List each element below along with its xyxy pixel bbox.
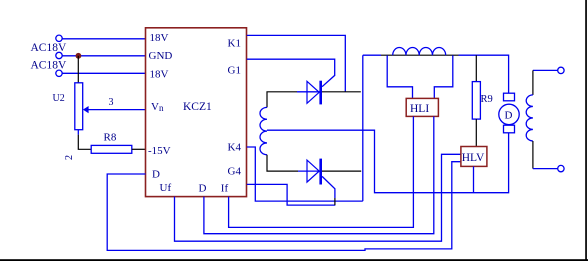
- label If pin: [221, 183, 229, 195]
- potentiometer U2 body: [75, 83, 83, 130]
- wire D bottom pin to HLI right output: [204, 116, 434, 233]
- field terminal bottom: [558, 165, 564, 171]
- wire transformer centre top to SCR1 anode: [267, 92, 297, 108]
- terminal input 2: [56, 52, 62, 58]
- thyristor V2 cathode bar: [319, 159, 322, 185]
- wire output to smoothing inductor: [363, 54, 381, 56]
- top line black segment: [381, 54, 459, 56]
- svg-text:3: 3: [109, 97, 114, 108]
- thyristor V2 triangle: [307, 160, 319, 182]
- svg-text:AC18V: AC18V: [31, 60, 67, 72]
- svg-text:KCZ1: KCZ1: [183, 101, 212, 113]
- svg-text:Vn: Vn: [151, 101, 164, 113]
- U2 bottom stub: [77, 130, 79, 135]
- svg-text:18V: 18V: [150, 32, 169, 44]
- svg-text:K4: K4: [228, 141, 242, 153]
- svg-text:2: 2: [64, 155, 75, 160]
- wire Uf pin to HLV output1: [175, 154, 461, 241]
- wire R9 to HLV top: [475, 119, 477, 146]
- motor top brush: [504, 93, 515, 101]
- label D pin left: [152, 168, 160, 180]
- thyristor V1 cathode bar: [319, 81, 322, 105]
- wire R8 to -15V pin: [132, 148, 146, 150]
- output node vertical bus: [362, 55, 364, 201]
- label GND pin: [149, 50, 173, 62]
- wire G1 to SCR1 gate: [247, 59, 335, 86]
- label G4 pin: [228, 166, 242, 178]
- thyristor V2 gate black segment: [334, 198, 336, 205]
- wire U2 bottom to R8: [78, 135, 91, 150]
- field winding top lead: [532, 70, 534, 95]
- label R8: [104, 131, 117, 143]
- wire terminal3 to 18V pin: [62, 72, 145, 74]
- label U2: [53, 93, 65, 104]
- field winding coil: [526, 95, 533, 141]
- label HLI: [410, 103, 429, 115]
- smoothing inductor L: [393, 47, 446, 55]
- wire K1 to SCR1 cathode: [247, 35, 345, 91]
- label KCZ1: [183, 101, 212, 113]
- svg-text:HLV: HLV: [462, 152, 485, 164]
- resistor R9 top stub: [475, 55, 477, 81]
- transformer secondary winding: [260, 107, 267, 154]
- op block KCZ1 body: [146, 28, 247, 197]
- field winding top wire: [533, 69, 558, 71]
- svg-text:U2: U2: [53, 93, 65, 104]
- svg-text:K1: K1: [228, 38, 241, 50]
- terminal input 1: [56, 35, 62, 41]
- wire wiper to Vn pin: [88, 109, 145, 111]
- pin number 2 (rotated): [64, 155, 75, 160]
- label Uf pin: [160, 182, 172, 194]
- label D pin bottom: [199, 183, 207, 195]
- thyristor V1 cathode wire: [322, 91, 361, 93]
- label 18V pin2: [150, 69, 169, 81]
- thyristor V2 gate wire: [322, 176, 335, 198]
- label Vn pin: [151, 101, 164, 113]
- svg-text:G4: G4: [228, 166, 242, 178]
- wire If pin to HLI left output: [229, 116, 414, 227]
- wire terminal2 to GND pin: [62, 55, 145, 57]
- wire terminal1 to 18V pin: [62, 38, 145, 40]
- svg-text:D: D: [152, 168, 160, 180]
- label AC18V lower: [31, 60, 67, 72]
- svg-text:R8: R8: [104, 131, 117, 143]
- field terminal top: [558, 67, 564, 73]
- thyristor V2 anode wire: [298, 170, 320, 172]
- thyristor V2 cathode wire: [322, 170, 361, 172]
- label K4 pin: [228, 141, 242, 153]
- wire junction to U2 top: [77, 56, 79, 83]
- label AC18V upper: [31, 42, 67, 54]
- frame border right: [585, 0, 587, 261]
- voltage sensor HLV box: [461, 147, 487, 167]
- svg-text:D: D: [199, 183, 207, 195]
- wire G4 to SCR2 gate: [247, 184, 335, 205]
- motor bottom brush: [504, 125, 515, 133]
- field winding bottom wire: [533, 168, 558, 170]
- svg-text:G1: G1: [228, 65, 241, 77]
- svg-text:AC18V: AC18V: [31, 42, 67, 54]
- top line blue segment to motor: [459, 55, 509, 93]
- label 18V pin1: [150, 32, 169, 44]
- resistor R8 body: [91, 145, 132, 153]
- label HLV: [462, 152, 485, 164]
- junction node dot: [76, 53, 82, 59]
- svg-text:18V: 18V: [150, 69, 169, 81]
- thyristor V1 anode wire: [297, 91, 320, 93]
- current sensor HLI box: [406, 98, 438, 116]
- wire centre tap to motor negative: [267, 130, 509, 193]
- label G1 pin: [228, 65, 241, 77]
- motor M body: [499, 104, 519, 124]
- svg-text:Uf: Uf: [160, 182, 172, 194]
- frame border bottom: [0, 259, 588, 261]
- label -15V pin: [148, 145, 171, 157]
- label R9: [481, 94, 493, 105]
- wire K4 to output node: [247, 147, 363, 201]
- wire HLV bottom to motor negative: [473, 166, 475, 192]
- label D motor: [505, 110, 513, 122]
- svg-text:HLI: HLI: [410, 103, 429, 115]
- svg-text:R9: R9: [481, 94, 493, 105]
- wire winding bottom to SCR2 anode: [267, 155, 298, 171]
- resistor R9 body: [472, 82, 480, 120]
- thyristor V1 triangle: [307, 81, 319, 103]
- svg-text:-15V: -15V: [148, 145, 171, 157]
- field winding bottom lead: [532, 141, 534, 169]
- U2 wiper arrow: [83, 106, 89, 113]
- svg-text:D: D: [505, 110, 513, 122]
- wire D left pin to HLV output2: [107, 162, 461, 251]
- svg-text:GND: GND: [149, 50, 173, 62]
- HLI sensor pickup bracket: [387, 55, 453, 98]
- svg-text:If: If: [221, 183, 229, 195]
- pin number 3: [109, 97, 114, 108]
- label K1 pin: [228, 38, 241, 50]
- terminal input 3: [56, 70, 62, 76]
